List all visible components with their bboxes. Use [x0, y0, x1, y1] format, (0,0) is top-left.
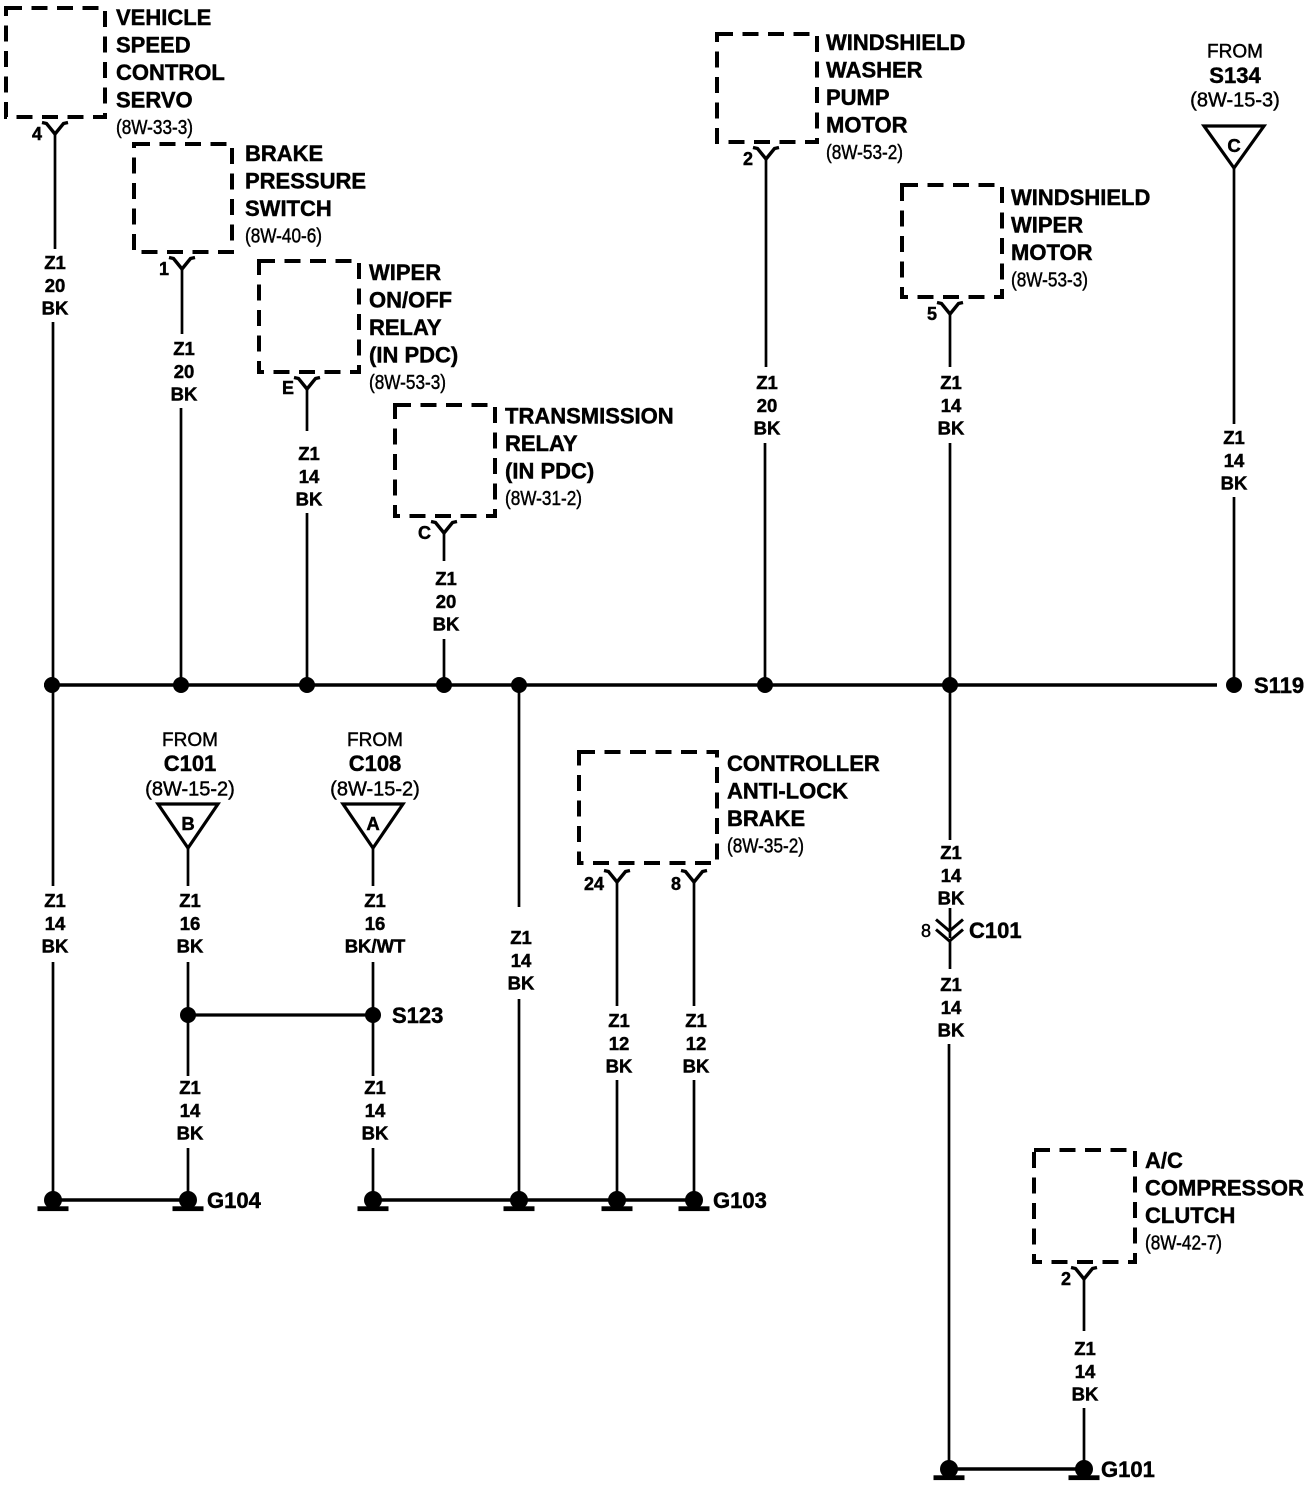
- svg-text:(8W-40-6): (8W-40-6): [245, 225, 322, 247]
- svg-text:RELAY: RELAY: [369, 315, 442, 340]
- svg-text:Z1: Z1: [173, 338, 195, 359]
- svg-text:24: 24: [584, 874, 604, 894]
- splice dot S123 left: [180, 1007, 196, 1023]
- svg-text:BK: BK: [508, 973, 535, 994]
- svg-text:Z1: Z1: [298, 443, 320, 464]
- svg-text:Z1: Z1: [685, 1010, 707, 1031]
- connector triangle C from S134: [1204, 126, 1264, 168]
- svg-text:ANTI-LOCK: ANTI-LOCK: [727, 779, 848, 804]
- svg-text:PRESSURE: PRESSURE: [245, 169, 366, 194]
- svg-text:(8W-33-3): (8W-33-3): [116, 117, 193, 139]
- splice dot S123 right: [365, 1007, 381, 1023]
- svg-text:WINDSHIELD: WINDSHIELD: [826, 30, 965, 55]
- svg-text:(8W-53-2): (8W-53-2): [826, 142, 903, 164]
- wire CAB 24 lead: [616, 882, 619, 1006]
- wire label Z1 14 BK col8: [1221, 427, 1248, 493]
- wire label Z1 12 BK pin24: [606, 1010, 633, 1076]
- connector triangle B from C101: [158, 804, 218, 848]
- svg-text:BRAKE: BRAKE: [727, 806, 805, 831]
- svg-text:BK: BK: [754, 418, 781, 439]
- label a/c compressor clutch: [1145, 1148, 1304, 1254]
- component box vehicle speed control servo: [6, 8, 105, 117]
- component box wiper on/off relay: [259, 261, 359, 372]
- svg-text:A: A: [366, 813, 379, 834]
- ground symbol G103 d: [679, 1191, 710, 1211]
- svg-text:20: 20: [45, 275, 66, 296]
- svg-text:Z1: Z1: [608, 1010, 630, 1031]
- svg-text:1: 1: [159, 259, 169, 279]
- svg-text:Z1: Z1: [756, 372, 778, 393]
- label windshield wiper motor: [1011, 185, 1150, 291]
- svg-text:BK: BK: [433, 614, 460, 635]
- pin connector servo pin 4: [42, 123, 68, 135]
- svg-text:14: 14: [299, 466, 320, 487]
- ground symbol G104 right: [173, 1191, 204, 1211]
- label FROM C108: [330, 730, 420, 801]
- wire ground bus S119: [44, 683, 1217, 687]
- svg-text:E: E: [282, 378, 294, 398]
- wire S134 lead: [1233, 168, 1236, 424]
- svg-text:BK: BK: [177, 936, 204, 957]
- svg-text:20: 20: [757, 395, 778, 416]
- wire pump lead: [765, 159, 768, 367]
- pin connector switch pin 1: [169, 258, 195, 270]
- svg-text:5: 5: [927, 304, 937, 324]
- svg-text:S119: S119: [1254, 673, 1304, 698]
- component box controller anti-lock brake: [579, 752, 717, 863]
- svg-text:Z1: Z1: [940, 372, 962, 393]
- wire col5 below bus: [518, 685, 521, 907]
- svg-text:BK: BK: [42, 936, 69, 957]
- svg-text:(8W-53-3): (8W-53-3): [369, 372, 446, 394]
- svg-text:G103: G103: [713, 1188, 767, 1213]
- svg-text:12: 12: [686, 1033, 707, 1054]
- svg-text:Z1: Z1: [1074, 1338, 1096, 1359]
- label vehicle speed control servo: [116, 5, 225, 139]
- svg-text:A/C: A/C: [1145, 1148, 1183, 1173]
- ground symbol G101 right: [1069, 1460, 1100, 1480]
- svg-text:SPEED: SPEED: [116, 33, 191, 58]
- wire label Z1 20 BK col1: [42, 252, 69, 318]
- wire col7 to bus: [949, 443, 952, 685]
- wire label Z1 14 BK below C101: [938, 974, 965, 1040]
- svg-text:(8W-15-2): (8W-15-2): [330, 779, 420, 801]
- wire clutch to G101: [1083, 1408, 1086, 1469]
- label windshield washer pump motor: [826, 30, 965, 164]
- wire label Z1 14 BK clutch: [1072, 1338, 1099, 1404]
- svg-text:Z1: Z1: [435, 568, 457, 589]
- pin connector CAB pin 8: [681, 871, 707, 883]
- svg-text:14: 14: [941, 997, 962, 1018]
- svg-text:G101: G101: [1101, 1457, 1155, 1482]
- svg-text:20: 20: [174, 361, 195, 382]
- svg-text:14: 14: [511, 950, 532, 971]
- svg-text:14: 14: [365, 1100, 386, 1121]
- pin connector pump pin 2: [753, 148, 779, 160]
- wire clutch lead: [1083, 1279, 1086, 1331]
- wire label Z1 14 BK col1 lower: [42, 890, 69, 956]
- svg-text:FROM: FROM: [162, 730, 218, 751]
- svg-text:Z1: Z1: [940, 842, 962, 863]
- svg-text:BK: BK: [42, 298, 69, 319]
- svg-text:BK: BK: [171, 384, 198, 405]
- ground symbol G101 left: [934, 1460, 965, 1480]
- svg-text:(8W-35-2): (8W-35-2): [727, 835, 804, 857]
- svg-text:14: 14: [1224, 450, 1245, 471]
- wire ground line G103: [373, 1198, 694, 1202]
- component box transmission relay: [395, 405, 495, 516]
- wire B lead: [187, 848, 190, 886]
- svg-text:BK: BK: [362, 1123, 389, 1144]
- wire label Z1 12 BK pin8: [683, 1010, 710, 1076]
- wire col1 below bus: [52, 685, 55, 886]
- splice dot splice S119 tap 8: [1226, 677, 1242, 693]
- svg-text:BK/WT: BK/WT: [345, 936, 406, 957]
- wire label Z1 16 BK colB: [177, 890, 204, 956]
- wire label Z1 20 BK col6: [754, 372, 781, 438]
- svg-text:(8W-31-2): (8W-31-2): [505, 488, 582, 510]
- svg-text:VEHICLE: VEHICLE: [116, 5, 211, 30]
- svg-text:PUMP: PUMP: [826, 85, 890, 110]
- svg-text:BK: BK: [683, 1056, 710, 1077]
- svg-text:WIPER: WIPER: [369, 260, 441, 285]
- svg-text:TRANSMISSION: TRANSMISSION: [505, 404, 674, 429]
- svg-text:MOTOR: MOTOR: [1011, 240, 1093, 265]
- pin connector CAB pin 24: [604, 871, 630, 883]
- wire A below S123: [372, 1015, 375, 1076]
- svg-text:FROM: FROM: [347, 730, 403, 751]
- svg-text:2: 2: [1061, 1269, 1071, 1289]
- splice dot splice S119 tap 6: [757, 677, 773, 693]
- svg-text:Z1: Z1: [510, 927, 532, 948]
- svg-text:B: B: [181, 813, 194, 834]
- svg-text:BK: BK: [606, 1056, 633, 1077]
- svg-text:C: C: [418, 523, 431, 543]
- svg-text:Z1: Z1: [44, 890, 66, 911]
- splice dot splice S119 tap 4: [436, 677, 452, 693]
- svg-text:14: 14: [941, 865, 962, 886]
- wire col7 to G101: [948, 1044, 951, 1469]
- component box brake pressure switch: [134, 144, 232, 252]
- svg-text:(8W-15-3): (8W-15-3): [1190, 90, 1280, 112]
- svg-text:Z1: Z1: [179, 1077, 201, 1098]
- wire transmission relay lead: [443, 533, 446, 561]
- wire label Z1 16 BK/WT colA: [345, 890, 406, 956]
- pin connector wiper motor pin 5: [937, 303, 963, 315]
- splice dot splice S119 tap 2: [173, 677, 189, 693]
- svg-text:C108: C108: [349, 751, 402, 776]
- svg-text:WIPER: WIPER: [1011, 213, 1083, 238]
- svg-text:ON/OFF: ON/OFF: [369, 288, 452, 313]
- wire col7 into C101: [949, 908, 952, 938]
- svg-text:RELAY: RELAY: [505, 431, 578, 456]
- wire label Z1 14 BK col3: [296, 443, 323, 509]
- svg-text:COMPRESSOR: COMPRESSOR: [1145, 1176, 1304, 1201]
- svg-text:(8W-42-7): (8W-42-7): [1145, 1232, 1222, 1254]
- wire label Z1 14 BK colA lower: [362, 1077, 389, 1143]
- svg-text:(8W-53-3): (8W-53-3): [1011, 269, 1088, 291]
- svg-text:C: C: [1227, 135, 1240, 156]
- wire col5 to G103: [518, 999, 521, 1200]
- svg-text:BK: BK: [296, 489, 323, 510]
- svg-text:8: 8: [921, 921, 931, 941]
- svg-text:BK: BK: [1072, 1384, 1099, 1405]
- wire CAB 8 lead: [693, 882, 696, 1006]
- svg-text:14: 14: [180, 1100, 201, 1121]
- wire label Z1 20 BK col4: [433, 568, 460, 634]
- pin connector clutch pin 2: [1071, 1268, 1097, 1280]
- svg-text:S123: S123: [392, 1003, 443, 1028]
- wire label Z1 20 BK col2: [171, 338, 198, 404]
- wire B to S123: [187, 962, 190, 1015]
- svg-text:SWITCH: SWITCH: [245, 196, 332, 221]
- svg-text:20: 20: [436, 591, 457, 612]
- svg-text:C101: C101: [969, 918, 1022, 943]
- splice dot splice S119 tap 1: [44, 677, 60, 693]
- label wiper on/off relay: [369, 260, 458, 394]
- svg-text:16: 16: [180, 913, 201, 934]
- ground symbol G103 b: [504, 1191, 535, 1211]
- splice dot splice S119 tap 5: [511, 677, 527, 693]
- component box windshield wiper motor: [902, 185, 1002, 297]
- svg-text:14: 14: [941, 395, 962, 416]
- label transmission relay: [505, 404, 674, 510]
- svg-text:CONTROLLER: CONTROLLER: [727, 751, 880, 776]
- wire B below S123: [187, 1015, 190, 1076]
- splice dot splice S119 tap 7: [942, 677, 958, 693]
- ground symbol G103 c: [602, 1191, 633, 1211]
- pin connector relay pin E: [294, 378, 320, 390]
- svg-text:MOTOR: MOTOR: [826, 113, 908, 138]
- svg-text:8: 8: [671, 874, 681, 894]
- wire col2 to bus: [180, 408, 183, 685]
- svg-text:12: 12: [609, 1033, 630, 1054]
- ground symbol G103 a: [358, 1191, 389, 1211]
- wire col3 to bus: [306, 513, 309, 685]
- svg-text:(IN PDC): (IN PDC): [369, 343, 458, 368]
- svg-text:BK: BK: [1221, 473, 1248, 494]
- component box a/c compressor clutch: [1034, 1150, 1135, 1262]
- svg-text:BK: BK: [177, 1123, 204, 1144]
- wire splice S123 jumper: [188, 1013, 373, 1016]
- svg-text:14: 14: [1075, 1361, 1096, 1382]
- svg-text:Z1: Z1: [44, 252, 66, 273]
- svg-text:G104: G104: [207, 1188, 262, 1213]
- svg-text:Z1: Z1: [364, 890, 386, 911]
- svg-text:Z1: Z1: [179, 890, 201, 911]
- wire ground line G101: [949, 1467, 1084, 1471]
- svg-text:BK: BK: [938, 888, 965, 909]
- svg-text:SERVO: SERVO: [116, 88, 193, 113]
- wire relay lead: [306, 389, 309, 431]
- splice dot splice S119 tap 3: [299, 677, 315, 693]
- wire CAB 24 to G103: [616, 1080, 619, 1200]
- wire col7 below bus: [949, 685, 952, 840]
- svg-text:WASHER: WASHER: [826, 58, 923, 83]
- svg-text:Z1: Z1: [1223, 427, 1245, 448]
- wire A to G103: [372, 1148, 375, 1200]
- wire wiper motor lead: [949, 314, 952, 367]
- wire A to S123: [372, 962, 375, 1015]
- svg-text:BK: BK: [938, 1020, 965, 1041]
- label FROM C101: [145, 730, 235, 801]
- svg-text:14: 14: [45, 913, 66, 934]
- svg-text:BRAKE: BRAKE: [245, 141, 323, 166]
- wire B to G104: [187, 1148, 190, 1200]
- wire CAB 8 to G103: [693, 1080, 696, 1200]
- in-line connector C101: [936, 920, 963, 942]
- wire col1 to G104: [52, 962, 55, 1200]
- label brake pressure switch: [245, 141, 366, 247]
- wire col7 out of C101: [949, 941, 952, 969]
- wire label Z1 14 BK above C101: [938, 842, 965, 908]
- wire col6 to bus: [764, 443, 767, 685]
- svg-text:Z1: Z1: [364, 1077, 386, 1098]
- wire col4 to bus: [443, 639, 446, 685]
- wire A lead: [372, 848, 375, 886]
- wire servo lead: [54, 134, 57, 249]
- svg-text:(8W-15-2): (8W-15-2): [145, 779, 235, 801]
- svg-text:CLUTCH: CLUTCH: [1145, 1203, 1235, 1228]
- svg-text:C101: C101: [164, 751, 217, 776]
- wire label Z1 14 BK col7: [938, 372, 965, 438]
- svg-text:4: 4: [32, 124, 42, 144]
- svg-text:16: 16: [365, 913, 386, 934]
- svg-text:(IN PDC): (IN PDC): [505, 459, 594, 484]
- wire label Z1 14 BK col5: [508, 927, 535, 993]
- svg-text:Z1: Z1: [940, 974, 962, 995]
- component box windshield washer pump motor: [717, 34, 817, 142]
- svg-text:WINDSHIELD: WINDSHIELD: [1011, 185, 1150, 210]
- svg-text:FROM: FROM: [1207, 42, 1263, 63]
- label controller anti-lock brake: [727, 751, 880, 857]
- ground symbol G104 left: [38, 1191, 69, 1211]
- connector triangle A from C108: [343, 804, 403, 848]
- wire col8 to bus: [1233, 497, 1236, 685]
- label FROM S134: [1190, 42, 1280, 112]
- wire switch lead: [181, 269, 184, 334]
- pin connector relay pin C: [431, 522, 457, 534]
- svg-text:2: 2: [743, 149, 753, 169]
- wire label Z1 14 BK colB lower: [177, 1077, 204, 1143]
- svg-text:BK: BK: [938, 418, 965, 439]
- svg-text:S134: S134: [1209, 63, 1261, 88]
- wire ground line G104: [53, 1198, 188, 1202]
- wire col1 to bus: [52, 322, 55, 685]
- svg-text:CONTROL: CONTROL: [116, 60, 225, 85]
